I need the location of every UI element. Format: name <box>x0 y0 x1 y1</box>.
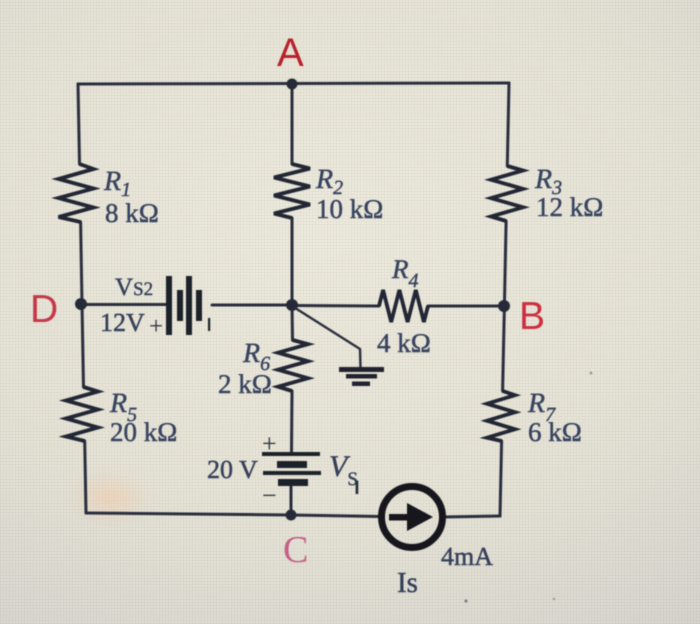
svg-text:VS2: VS2 <box>115 274 153 301</box>
node C <box>286 510 297 521</box>
wire center rail node-to-R6 <box>291 305 295 340</box>
svg-text:+: + <box>149 313 163 340</box>
svg-text:C: C <box>283 529 308 571</box>
svg-text:R1: R1 <box>103 166 131 201</box>
svg-text:VS: VS <box>329 450 358 490</box>
svg-text:+: + <box>262 429 277 458</box>
wire left rail D-to-R5 <box>82 304 84 387</box>
ground bar 2 <box>346 374 377 379</box>
ground bar 3 <box>352 382 370 387</box>
node B <box>498 300 510 312</box>
ground bar 1 <box>339 367 384 372</box>
wire right rail lower <box>500 441 502 516</box>
svg-text:4 kΩ: 4 kΩ <box>377 328 431 358</box>
wire right rail R3-to-B <box>504 221 506 306</box>
svg-text:12V: 12V <box>100 308 145 337</box>
wire middle battery-to-node <box>212 304 292 307</box>
resistor R5 <box>66 387 98 441</box>
wire center rail R6-to-battery <box>290 391 294 452</box>
svg-text:6 kΩ: 6 kΩ <box>528 417 582 447</box>
label VS1 subscript tick <box>356 481 359 495</box>
wire right rail upper <box>507 83 509 166</box>
battery VS2 plate 2 (short) <box>177 290 183 321</box>
wire bottom left <box>86 513 291 515</box>
svg-text:8 kΩ: 8 kΩ <box>105 198 159 228</box>
resistor R1 <box>59 164 94 222</box>
battery VS2 plate 1 (tall) <box>166 276 172 335</box>
wire bottom source-to-corner <box>443 516 500 517</box>
resistor R2 <box>274 164 310 218</box>
svg-text:4mA: 4mA <box>441 542 493 571</box>
svg-text:12 kΩ: 12 kΩ <box>536 192 603 222</box>
wire center rail battery-to-C <box>290 486 293 515</box>
battery VS2 plate 3 (tall) <box>186 276 192 335</box>
wire middle R4-to-B <box>428 305 504 308</box>
svg-text:Is: Is <box>397 567 418 599</box>
svg-text:20 kΩ: 20 kΩ <box>110 417 177 447</box>
wire center rail A-to-R2 <box>291 84 294 164</box>
current source circle <box>382 487 443 548</box>
svg-text:B: B <box>519 295 545 338</box>
node A <box>287 79 298 90</box>
wire left rail R1-to-D <box>81 222 82 304</box>
svg-text:10 kΩ: 10 kΩ <box>316 194 383 224</box>
current source arrow <box>389 514 409 521</box>
battery VS1 plate 4 (short thick) <box>278 479 308 486</box>
battery VS1 plate 2 (short thick) <box>277 461 307 468</box>
wire center rail R2-to-node <box>291 218 294 305</box>
svg-text:−: − <box>262 481 277 510</box>
svg-text:2 kΩ: 2 kΩ <box>218 369 272 399</box>
battery VS2 tick I <box>208 318 210 331</box>
wire bottom C-to-source <box>291 515 381 517</box>
wire middle node-to-R4 <box>292 304 379 308</box>
svg-text:R4: R4 <box>391 254 419 292</box>
node center junction <box>286 299 298 311</box>
dust speck <box>553 598 555 600</box>
wire left rail lower <box>85 441 86 513</box>
resistor R6 <box>278 340 308 391</box>
wire middle D-to-battery <box>82 303 166 306</box>
svg-text:20 V: 20 V <box>207 455 258 484</box>
dust speck <box>590 372 593 375</box>
svg-text:A: A <box>277 31 304 75</box>
wire top rail <box>78 83 509 84</box>
dust speck <box>464 599 467 602</box>
node D <box>75 298 87 310</box>
battery VS1 plate 3 (long) <box>263 471 321 475</box>
wire right rail B-to-R7 <box>503 306 505 391</box>
battery VS1 plate 1 (long) <box>262 452 320 456</box>
resistor R4 <box>379 290 428 322</box>
wire left rail upper <box>78 84 80 164</box>
svg-text:D: D <box>30 288 58 331</box>
battery VS2 plate 4 (short) <box>196 290 202 321</box>
ground wire diagonal <box>292 306 361 368</box>
resistor R3 <box>491 166 523 221</box>
resistor R7 <box>487 391 515 441</box>
